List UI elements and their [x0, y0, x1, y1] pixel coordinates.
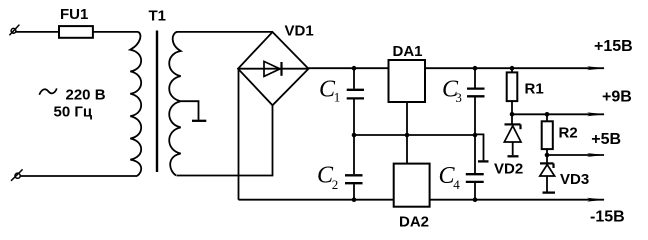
svg-text:R2: R2 — [559, 124, 578, 141]
svg-text:DA2: DA2 — [399, 214, 429, 231]
bridge rectifier VD1 — [238, 32, 309, 105]
wire: positive top rail — [309, 67, 605, 69]
wire: secondary top to bridge — [177, 31, 273, 33]
arrow +9V output — [587, 112, 605, 116]
node: C3 top junction — [473, 66, 478, 71]
capacitor C2 — [353, 135, 355, 200]
arrow +5V output — [587, 153, 605, 157]
diode inside VD1 — [264, 61, 280, 76]
svg-text:+9В: +9В — [602, 89, 632, 106]
wire: +5V line — [547, 154, 604, 156]
resistor R1 — [511, 68, 513, 72]
wire: negative bottom rail — [239, 199, 605, 201]
node: R2 top junction — [545, 112, 550, 117]
label ~ 220 V 50 Hz — [39, 88, 57, 94]
node: C2 bottom junction — [352, 197, 357, 202]
node: C1 top junction — [352, 66, 357, 71]
svg-text:-15В: -15В — [590, 209, 625, 226]
wire: fuse to transformer primary — [93, 31, 138, 33]
fuse FU1 — [59, 26, 93, 38]
wire: DA1 ground pin — [406, 102, 408, 135]
svg-text:220 В: 220 В — [66, 87, 106, 104]
node: R2 bottom +5V junction — [545, 153, 550, 158]
svg-text:3: 3 — [455, 90, 462, 105]
svg-text:FU1: FU1 — [60, 6, 88, 23]
terminal X1 top input — [9, 25, 19, 36]
ground (VD3 anode) — [543, 191, 556, 193]
wire: bridge left corner down to negative rail — [238, 69, 240, 200]
svg-text:VD1: VD1 — [285, 22, 314, 39]
node: C4 bottom junction — [473, 197, 478, 202]
node: R1 bottom +9V junction — [510, 112, 515, 117]
svg-text:VD3: VD3 — [560, 171, 589, 188]
svg-text:+15В: +15В — [594, 38, 633, 55]
wire: secondary bottom to bridge bottom corner — [177, 105, 273, 175]
arrow -15V output — [587, 198, 605, 202]
regulator DA1 — [389, 60, 426, 102]
terminal X2 bottom input — [11, 169, 23, 180]
zener diode VD3 — [546, 155, 548, 164]
node: DA1/DA2 ground junction — [405, 133, 410, 138]
svg-text:4: 4 — [453, 177, 460, 192]
capacitor C3 — [474, 68, 476, 135]
wire: middle common rail — [354, 134, 475, 136]
wire: DA2 ground pin — [406, 135, 408, 164]
capacitor C4 — [474, 135, 476, 200]
resistor R2 — [546, 114, 548, 121]
zener diode VD2 — [511, 114, 513, 125]
svg-text:T1: T1 — [149, 7, 167, 24]
svg-text:50 Гц: 50 Гц — [54, 103, 93, 120]
node: middle rail end junction — [473, 133, 478, 138]
arrow +15V output — [587, 66, 605, 70]
node: C1 bottom junction — [352, 133, 357, 138]
ground (center tap) — [192, 120, 206, 122]
transformer T1 primary winding — [130, 32, 141, 176]
wire: secondary center tap — [181, 101, 199, 120]
capacitor C1 — [353, 68, 355, 135]
wire: +9V line — [512, 113, 604, 115]
regulator DA2 — [394, 164, 430, 207]
transformer T1 core — [156, 31, 158, 173]
svg-text:1: 1 — [334, 89, 341, 104]
svg-text:DA1: DA1 — [393, 43, 423, 60]
node: R1 top junction — [510, 66, 515, 71]
ground (VD2 anode) — [508, 155, 519, 157]
wire: top terminal to fuse — [16, 31, 59, 33]
svg-text:+5В: +5В — [591, 131, 621, 148]
transformer T1 secondary winding — [169, 32, 180, 176]
svg-text:R1: R1 — [525, 80, 544, 97]
wire: bottom terminal to primary bottom — [20, 175, 137, 177]
svg-text:VD2: VD2 — [494, 160, 523, 177]
svg-text:2: 2 — [332, 177, 339, 192]
ground (middle rail, near C4) — [475, 134, 484, 160]
